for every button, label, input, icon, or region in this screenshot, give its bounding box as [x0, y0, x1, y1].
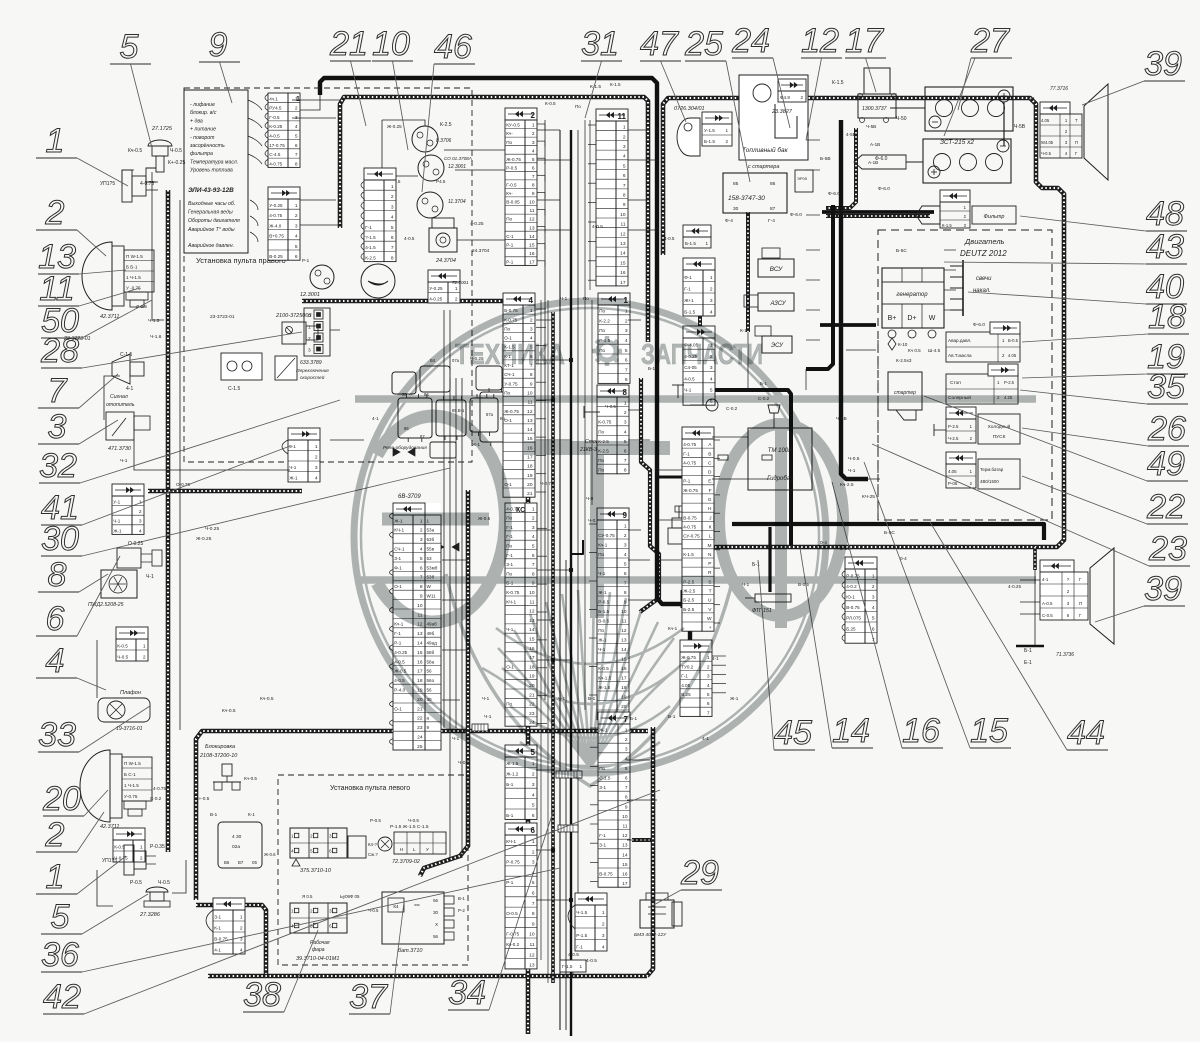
wire deutz feed [820, 323, 876, 327]
watermark text TEHNIKA ZAPCHASTI [455, 339, 763, 371]
svg-text:8: 8 [295, 161, 298, 167]
callout 27 [958, 22, 1012, 110]
svg-text:Кч-1: Кч-1 [394, 622, 404, 627]
svg-text:3: 3 [625, 747, 628, 753]
callout 2 [36, 812, 104, 854]
svg-text:У-0.75: У-0.75 [124, 794, 138, 799]
starter box [888, 372, 922, 420]
svg-text:4-0.5: 4-0.5 [568, 952, 579, 958]
svg-text:22: 22 [417, 716, 423, 722]
svg-text:Ч-5В: Ч-5В [1014, 124, 1026, 130]
svg-text:А-0.5: А-0.5 [1042, 601, 1053, 606]
svg-text:2: 2 [625, 737, 628, 743]
svg-text:14: 14 [832, 712, 870, 750]
svg-text:4-0.75: 4-0.75 [683, 442, 696, 447]
callout 11 [38, 270, 140, 308]
svg-text:Б-1: Б-1 [506, 813, 514, 818]
svg-text:R: R [708, 570, 712, 576]
svg-text:Ж-0.75: Ж-0.75 [683, 488, 698, 493]
AZSU box [744, 293, 794, 311]
svg-text:5: 5 [532, 880, 535, 886]
svg-text:а: а [427, 716, 430, 721]
brake switch [579, 439, 711, 544]
svg-text:G: G [708, 497, 712, 503]
svg-text:Р-1: Р-1 [302, 258, 310, 263]
svg-text:В-0.75: В-0.75 [846, 605, 860, 610]
callout 34 [448, 812, 553, 1012]
svg-text:М: М [708, 543, 712, 549]
svg-text:3: 3 [532, 140, 535, 146]
svg-text:4: 4 [295, 234, 298, 240]
svg-text:отопитель: отопитель [106, 402, 135, 408]
svg-text:В-0.25: В-0.25 [269, 254, 283, 259]
svg-text:В6: В6 [224, 860, 230, 865]
svg-text:с стартера: с стартера [748, 164, 779, 170]
svg-text:L: L [413, 847, 416, 852]
svg-text:30: 30 [41, 520, 79, 558]
connector table 9 [597, 508, 629, 720]
relay aux boxes [392, 372, 416, 394]
svg-text:Кч-: Кч- [506, 191, 513, 196]
svg-text:D+: D+ [907, 315, 916, 322]
svg-text:19-3716-01: 19-3716-01 [116, 726, 143, 732]
svg-text:4-0.5: 4-0.5 [404, 236, 415, 241]
svg-text:W11: W11 [427, 594, 437, 599]
svg-text:РЛ.075: РЛ.075 [846, 616, 861, 621]
svg-text:Р-1: Р-1 [683, 479, 691, 484]
svg-text:Ф-6.0: Ф-6.0 [790, 212, 802, 218]
svg-text:38: 38 [243, 976, 281, 1014]
svg-text:9: 9 [623, 202, 626, 208]
svg-text:16: 16 [622, 872, 628, 878]
svg-text:1: 1 [623, 125, 626, 131]
svg-text:23-3723-01: 23-3723-01 [210, 314, 235, 320]
wire elbow bottom-left of engine [681, 590, 684, 608]
svg-text:12.3001: 12.3001 [448, 164, 466, 170]
svg-text:17: 17 [417, 669, 423, 675]
svg-text:11: 11 [618, 112, 627, 121]
svg-text:Б-5С: Б-5С [896, 248, 907, 254]
svg-text:9: 9 [420, 594, 423, 600]
svg-text:фильтра: фильтра [190, 151, 213, 157]
svg-text:Ф-6.0: Ф-6.0 [828, 191, 840, 197]
svg-text:Г-0.5: Г-0.5 [269, 115, 280, 120]
svg-text:3: 3 [532, 525, 535, 531]
engine dashes vertical [877, 332, 879, 518]
svg-text:39: 39 [1144, 45, 1182, 83]
heater gauge 471.3730 [106, 394, 150, 452]
callout 32 [39, 400, 340, 485]
svg-text:85: 85 [733, 181, 739, 187]
svg-text:3: 3 [532, 782, 535, 788]
svg-text:1: 1 [391, 184, 394, 190]
svg-text:Г-0.5: Г-0.5 [506, 183, 517, 188]
connector table X8 [683, 258, 715, 316]
svg-text:засорённость: засорённость [189, 143, 225, 149]
band stub table7 [632, 838, 651, 842]
svg-text:10: 10 [622, 814, 628, 820]
svg-text:W: W [427, 584, 432, 589]
svg-text:+: + [709, 626, 712, 631]
connector table 11 [596, 109, 628, 286]
dashed box driver console [184, 88, 472, 462]
svg-text:4: 4 [623, 154, 626, 160]
callout 9 [199, 26, 240, 103]
svg-text:2: 2 [391, 194, 394, 200]
svg-text:0726.304/01: 0726.304/01 [674, 106, 705, 112]
svg-text:7: 7 [625, 367, 628, 373]
connector table X13 [680, 640, 712, 716]
svg-text:14: 14 [622, 852, 628, 858]
table B-1.5 [683, 225, 711, 237]
svg-text:Б-1.5: Б-1.5 [685, 241, 696, 246]
svg-text:9: 9 [532, 191, 535, 197]
svg-text:4-0.75: 4-0.75 [153, 786, 166, 791]
svg-text:47: 47 [640, 25, 679, 63]
svg-text:По: По [506, 140, 512, 145]
svg-text:12: 12 [621, 628, 627, 634]
svg-text:Р-2.5: Р-2.5 [1004, 380, 1015, 385]
svg-text:0-4: 0-4 [900, 556, 907, 561]
connector table 4 [503, 293, 535, 497]
svg-text:6: 6 [531, 826, 536, 835]
svg-text:По: По [504, 326, 510, 331]
battery block 1 [925, 87, 1013, 146]
callout 47 [640, 25, 686, 122]
svg-text:Р-2: Р-2 [458, 908, 465, 913]
svg-text:14: 14 [529, 234, 535, 240]
junction dots [655, 128, 659, 132]
svg-text:Ч-5В: Ч-5В [836, 416, 847, 422]
svg-text:7: 7 [532, 562, 535, 568]
svg-text:L: L [709, 534, 712, 540]
svg-text:16: 16 [902, 712, 940, 750]
svg-text:Двигатель: Двигатель [964, 237, 1005, 246]
svg-text:23: 23 [529, 711, 535, 717]
svg-text:Р-2.5: Р-2.5 [948, 424, 959, 429]
svg-text:Ч-1: Ч-1 [482, 696, 490, 701]
svg-text:1: 1 [725, 128, 728, 133]
callout 40 [968, 268, 1187, 306]
callout 26 [1022, 410, 1189, 448]
svg-text:Р-0.5: Р-0.5 [506, 165, 517, 170]
svg-text:5: 5 [51, 898, 70, 936]
connector table 6 [505, 823, 537, 969]
svg-text:15: 15 [417, 650, 423, 656]
svg-text:32: 32 [39, 447, 77, 485]
svg-text:Ф-1: Ф-1 [684, 275, 692, 280]
svg-text:4-1: 4-1 [126, 386, 133, 392]
svg-text:W: W [929, 315, 936, 322]
svg-text:23.3827: 23.3827 [771, 109, 793, 115]
svg-text:Ч-0.5: Ч-0.5 [117, 655, 128, 660]
svg-text:Б-1: Б-1 [1028, 96, 1036, 101]
connector table KC [505, 503, 537, 726]
svg-text:4: 4 [532, 148, 535, 154]
svg-text:В-0.75: В-0.75 [683, 515, 697, 520]
svg-text:Т: Т [709, 589, 712, 595]
svg-text:4-1: 4-1 [214, 948, 221, 953]
svg-text:14: 14 [620, 251, 626, 257]
svg-text:Ф-4: Ф-4 [725, 218, 733, 224]
callout 39 [1095, 570, 1185, 622]
svg-text:В-1: В-1 [210, 812, 218, 817]
svg-text:У-0.75: У-0.75 [504, 381, 518, 386]
svg-text:С-1: С-1 [506, 234, 514, 239]
svg-text:2: 2 [872, 584, 875, 590]
svg-text:Ч-0.5: Ч-0.5 [170, 148, 182, 154]
svg-text:5: 5 [625, 348, 628, 354]
connector table X3 [288, 428, 320, 482]
svg-text:- поворот: - поворот [190, 135, 215, 141]
svg-text:49б: 49б [427, 631, 435, 636]
svg-text:Г-1: Г-1 [684, 287, 691, 292]
svg-text:В-0.75: В-0.75 [599, 872, 613, 877]
svg-text:По: По [506, 571, 512, 576]
extra verticals center [540, 300, 542, 960]
callout 5 [110, 28, 152, 148]
svg-text:2: 2 [725, 139, 728, 144]
connector table X6 [361, 168, 396, 262]
svg-text:Ж-0.25: Ж-0.25 [196, 536, 212, 542]
svg-text:4: 4 [420, 547, 423, 553]
svg-text:генератор: генератор [896, 292, 928, 298]
svg-text:Ft: Ft [746, 236, 751, 241]
harness band engine inner drop [746, 212, 750, 332]
svg-text:Ж-0.75: Ж-0.75 [504, 409, 519, 414]
svg-text:5: 5 [295, 244, 298, 250]
callout 21 [329, 25, 371, 126]
ignition switch 24.3704 [404, 218, 457, 264]
svg-text:3: 3 [707, 674, 710, 680]
svg-text:Р-0.5: Р-0.5 [370, 818, 381, 823]
svg-text:4: 4 [602, 945, 605, 951]
wire ticks right column [806, 139, 820, 141]
svg-text:С-0.5: С-0.5 [1042, 613, 1053, 618]
svg-text:2: 2 [308, 336, 311, 342]
svg-text:15: 15 [529, 637, 535, 643]
svg-text:Р-1: Р-1 [506, 242, 514, 247]
svg-text:18: 18 [527, 464, 533, 470]
svg-text:1: 1 [140, 845, 143, 851]
svg-text:5: 5 [391, 225, 394, 231]
svg-text:Авар.давл.: Авар.давл. [948, 338, 971, 343]
svg-text:У-1.5: У-1.5 [704, 128, 715, 133]
svg-text:13: 13 [620, 241, 626, 247]
svg-text:БМЗ 4002-12У: БМЗ 4002-12У [634, 932, 667, 938]
svg-text:ЭР05: ЭР05 [797, 176, 808, 181]
svg-text:Ж-0.6: Ж-0.6 [264, 852, 276, 857]
svg-text:F: F [709, 488, 712, 494]
svg-text:Ч-0.5: Ч-0.5 [1041, 151, 1052, 156]
svg-text:Ч-1.5: Ч-1.5 [576, 910, 587, 915]
button 27.3286 [139, 887, 170, 918]
svg-text:Аварийное Т° воды: Аварийное Т° воды [187, 226, 235, 233]
horn klaxon [361, 264, 395, 298]
svg-text:4: 4 [295, 124, 298, 130]
svg-text:?-1.5: ?-1.5 [365, 235, 376, 240]
svg-text:34: 34 [448, 974, 486, 1012]
svg-text:Б Б-1: Б Б-1 [126, 265, 138, 270]
component 0726.304 [674, 106, 732, 156]
svg-text:5: 5 [872, 616, 875, 622]
svg-text:7: 7 [391, 245, 394, 251]
svg-text:К-2.5: К-2.5 [440, 122, 452, 128]
callout 45 [758, 560, 815, 752]
svg-text:9: 9 [530, 381, 533, 387]
svg-text:Кч-1: Кч-1 [668, 626, 678, 631]
svg-text:П W-1.5: П W-1.5 [126, 254, 143, 259]
svg-text:У-1: У-1 [113, 500, 120, 505]
svg-text:4: 4 [391, 215, 394, 221]
svg-text:7: 7 [532, 901, 535, 907]
svg-text:К-0.25: К-0.25 [269, 124, 283, 129]
svg-text:8: 8 [624, 590, 627, 596]
svg-text:Ю-1: Ю-1 [846, 595, 855, 600]
engine tables right column [946, 322, 1020, 362]
svg-text:Установка пульта левого: Установка пульта левого [330, 785, 410, 792]
svg-text:8: 8 [532, 911, 535, 917]
svg-text:Ч-0.5: Ч-0.5 [158, 880, 170, 886]
svg-text:1: 1 [308, 325, 311, 331]
svg-text:З-1: З-1 [394, 556, 401, 561]
svg-text:39: 39 [1144, 570, 1182, 608]
harness band speaker2 drop [1033, 547, 1037, 570]
svg-text:Г-4: Г-4 [768, 218, 775, 224]
svg-text:В+0.75: В+0.75 [269, 234, 284, 239]
svg-text:3: 3 [710, 298, 713, 304]
svg-text:- лифание: - лифание [190, 102, 215, 108]
svg-text:Б-1: Б-1 [630, 716, 638, 721]
callout 49 [924, 396, 1188, 483]
svg-text:С-1.5: С-1.5 [228, 386, 240, 392]
connector table X9 [683, 326, 715, 405]
bracket wires table11 left [588, 124, 596, 126]
svg-text:77.3716: 77.3716 [1050, 86, 1068, 92]
svg-text:D: D [708, 470, 712, 476]
svg-text:2: 2 [45, 816, 65, 854]
svg-text:2: 2 [623, 134, 626, 140]
svg-text:скоростей: скоростей [300, 374, 325, 381]
sensor OTG 151 [742, 582, 809, 614]
svg-text:Кч: Кч [500, 416, 505, 421]
connector table 7 [598, 712, 630, 887]
hazard flag box [0, 0, 1, 1]
svg-text:6: 6 [295, 143, 298, 149]
svg-text:7: 7 [623, 183, 626, 189]
svg-text:37: 37 [349, 978, 388, 1016]
svg-text:Г-1: Г-1 [394, 631, 401, 636]
svg-text:10: 10 [529, 932, 535, 938]
svg-text:В: В [708, 451, 711, 457]
svg-text:3: 3 [602, 933, 605, 939]
resistor symbol [718, 455, 728, 460]
svg-text:ТЕХНИКА: ТЕХНИКА [455, 339, 565, 371]
callout 28 [40, 332, 302, 370]
svg-text:N: N [708, 552, 712, 558]
svg-text:6: 6 [625, 358, 628, 364]
svg-text:16: 16 [620, 270, 626, 276]
callout 8 [38, 556, 108, 594]
svg-text:По: По [504, 391, 510, 396]
svg-text:Ж-1: Ж-1 [113, 528, 122, 533]
svg-text:ВСУ: ВСУ [770, 266, 784, 273]
svg-text:Ч-0.25: Ч-0.25 [205, 526, 219, 532]
svg-text:86: 86 [770, 181, 776, 187]
svg-text:Кч-0.2: Кч-0.2 [506, 942, 519, 947]
svg-text:12: 12 [529, 217, 535, 223]
svg-text:Г-1: Г-1 [681, 674, 688, 679]
svg-text:Холодный: Холодный [988, 423, 1011, 430]
svg-text:6: 6 [295, 254, 298, 260]
svg-text:Ч-0.5: Ч-0.5 [408, 818, 419, 823]
svg-text:11: 11 [530, 208, 535, 214]
svg-text:К-1.5: К-1.5 [942, 223, 952, 228]
svg-text:85.В-1: 85.В-1 [452, 408, 465, 413]
svg-text:З-1: З-1 [214, 915, 221, 920]
svg-text:Р-1: Р-1 [506, 260, 514, 265]
svg-text:О-0.5: О-0.5 [506, 911, 518, 916]
svg-text:15: 15 [622, 862, 628, 868]
svg-text:Сигнал: Сигнал [110, 394, 128, 400]
work lamp connector [290, 894, 360, 962]
svg-text:26: 26 [1147, 410, 1186, 448]
svg-text:1: 1 [602, 910, 605, 916]
generator area ticks [944, 249, 956, 251]
svg-text:4: 4 [624, 429, 627, 435]
svg-text:Л-0.5: Л-0.5 [136, 304, 147, 309]
svg-text:87: 87 [770, 206, 776, 212]
starter relay 158-3747-30 [723, 164, 813, 224]
headlight left bottom speedometer [80, 750, 166, 830]
svg-text:14: 14 [417, 641, 423, 647]
svg-text:14: 14 [527, 427, 533, 433]
svg-text:Г-1: Г-1 [599, 833, 606, 838]
callout 48 [1020, 195, 1187, 233]
svg-text:1: 1 [295, 203, 298, 209]
svg-text:1: 1 [532, 506, 535, 512]
svg-text:2: 2 [625, 318, 628, 324]
connector table 8 [597, 385, 629, 474]
glow plugs [950, 260, 992, 328]
component flame plug [117, 541, 162, 580]
svg-text:4-0.25: 4-0.25 [1008, 584, 1021, 589]
callout 12 [801, 22, 842, 140]
svg-text:39.3710-04-01М1: 39.3710-04-01М1 [296, 956, 339, 962]
svg-text:ЭЛИ-43-93-12В: ЭЛИ-43-93-12В [188, 187, 234, 194]
connector table X11 [213, 898, 245, 954]
svg-text:Г-1.5: Г-1.5 [562, 964, 573, 969]
svg-text:1: 1 [579, 964, 582, 969]
svg-text:3: 3 [420, 537, 423, 543]
harness band bottom box [208, 974, 647, 979]
svg-text:72.3001: 72.3001 [452, 280, 469, 285]
svg-text:По: По [506, 217, 512, 222]
svg-text:9-1: 9-1 [289, 444, 296, 449]
svg-text:10: 10 [529, 200, 535, 206]
svg-text:45: 45 [774, 714, 812, 752]
svg-text:Р4.5: Р4.5 [436, 179, 446, 184]
callout 37 [349, 902, 404, 1016]
svg-text:Р-1: Р-1 [506, 880, 514, 885]
heater fan PZHD [88, 570, 137, 608]
svg-text:W: W [707, 616, 712, 622]
svg-text:12: 12 [801, 22, 839, 60]
connector table X12 [575, 893, 607, 951]
svg-text:4-0.75: 4-0.75 [683, 525, 696, 530]
svg-text:17: 17 [529, 260, 535, 266]
svg-text:бат.3710: бат.3710 [398, 948, 423, 954]
